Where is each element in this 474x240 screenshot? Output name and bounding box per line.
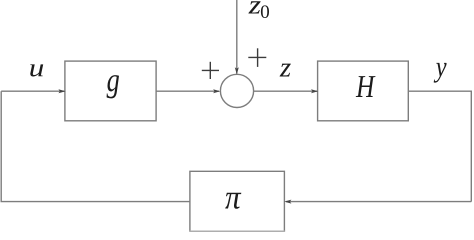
wire junction to H — [254, 90, 318, 92]
wire pi to left and up — [1, 91, 190, 201]
wire g to junction — [156, 90, 219, 92]
arrowhead into junction left — [213, 89, 220, 93]
label z0 subscript — [261, 5, 269, 18]
label z — [280, 64, 291, 77]
summing junction — [220, 74, 253, 107]
label z0 — [248, 1, 260, 13]
plus sign left — [202, 62, 219, 79]
label g — [107, 75, 119, 98]
arrowhead into junction top — [235, 67, 239, 74]
block g — [65, 61, 156, 121]
arrowhead into pi — [284, 200, 291, 204]
block H — [318, 61, 409, 121]
label y — [434, 63, 447, 83]
wire u input — [1, 90, 64, 92]
block pi bottom edge — [189, 230, 285, 232]
wire right to pi — [286, 201, 471, 203]
arrowhead into H — [311, 89, 318, 93]
block pi — [190, 171, 285, 231]
plus sign upper — [248, 48, 266, 67]
label H — [356, 76, 376, 97]
wire H output and right down — [408, 91, 471, 201]
wire z0 vertical — [236, 0, 238, 74]
label pi — [225, 193, 241, 209]
label u — [30, 64, 43, 76]
arrowhead into g — [58, 89, 65, 93]
